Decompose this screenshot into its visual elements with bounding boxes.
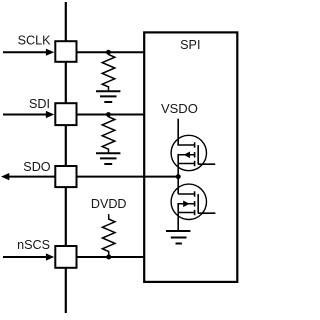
- node: SDO junction dot: [176, 174, 181, 179]
- wire: SDO output line: [9, 176, 56, 178]
- ground (R2): [96, 153, 120, 164]
- wire: left vertical bus: [65, 2, 67, 313]
- resistor R1 (SCLK pulldown): [102, 52, 115, 91]
- wire: node to Q2 drain: [177, 177, 179, 194]
- wire: SDI input line: [3, 114, 47, 116]
- svg-text:SPI: SPI: [180, 38, 200, 52]
- svg-text:VSDO: VSDO: [161, 101, 198, 116]
- node: nSCS junction dot: [106, 255, 111, 260]
- node: SCLK junction dot: [106, 50, 111, 55]
- resistor R3 (nSCS pullup to DVDD): [102, 214, 115, 257]
- arrowhead nSCS (points right): [46, 253, 54, 260]
- arrowhead SDO (points left): [1, 173, 9, 180]
- svg-text:nSCS: nSCS: [17, 238, 50, 252]
- ground (Q2 source): [166, 231, 190, 244]
- svg-text:DVDD: DVDD: [91, 197, 127, 211]
- wire: SCLK input line: [3, 51, 47, 53]
- wire: SDO to transistor node: [77, 176, 178, 178]
- pin box nSCS: [55, 246, 76, 268]
- wire: SCLK to SPI: [77, 51, 145, 53]
- svg-text:SDO: SDO: [23, 160, 50, 174]
- wire: nSCS to SPI: [77, 256, 145, 258]
- arrowhead SDI (points right): [46, 111, 54, 118]
- wire: SDI to SPI: [77, 114, 145, 116]
- transistor Q2 (NMOS, bottom): [171, 184, 215, 231]
- transistor Q1 (PMOS, top): [171, 135, 215, 176]
- ground (R1): [96, 91, 120, 102]
- pin box SDI: [55, 103, 76, 125]
- svg-text:SCLK: SCLK: [18, 34, 51, 48]
- svg-text:SDI: SDI: [29, 97, 50, 111]
- pin box SDO: [55, 166, 76, 187]
- pin box SCLK: [55, 41, 76, 62]
- wire: nSCS input line: [3, 256, 47, 258]
- node: SDI junction dot: [106, 112, 111, 117]
- wire: VSDO to Q1 drain: [177, 119, 179, 145]
- SPI block U1: [144, 32, 237, 282]
- resistor R2 (SDI pulldown): [102, 115, 115, 154]
- arrowhead SCLK (points right): [46, 49, 54, 56]
